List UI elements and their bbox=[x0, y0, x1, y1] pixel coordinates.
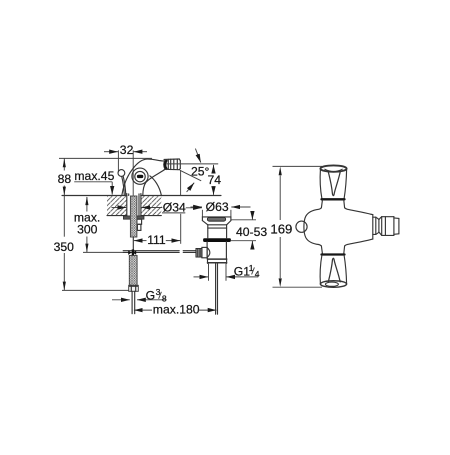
centerline faucet bbox=[132, 150, 134, 195]
supply pipe bbox=[131, 291, 133, 313]
aerator left view bbox=[164, 159, 181, 170]
svg-text:300: 300 bbox=[77, 223, 98, 237]
rod vertical segment bbox=[132, 237, 134, 250]
spout tip projection extension bbox=[180, 170, 182, 195]
dim 169 extension top bbox=[273, 165, 323, 167]
drain body lower bbox=[206, 242, 208, 259]
svg-text:max.180: max.180 bbox=[153, 303, 200, 317]
pop-up rod to deck bbox=[122, 176, 125, 195]
svg-text:88: 88 bbox=[58, 172, 72, 186]
seal ring bbox=[203, 238, 231, 242]
svg-text:max.45: max.45 bbox=[74, 169, 114, 183]
svg-text:Ø34: Ø34 bbox=[163, 200, 186, 214]
dim 40-53 bbox=[231, 219, 256, 221]
shank nut below washer bbox=[137, 219, 142, 224]
dim Ø63 label bbox=[191, 206, 203, 208]
top handle bbox=[320, 165, 346, 207]
dim 32 arrows bbox=[104, 151, 118, 153]
dim line max300 bbox=[86, 197, 88, 212]
coupling bbox=[208, 258, 227, 263]
countertop top line bbox=[62, 195, 127, 197]
dim 32 left extension bbox=[117, 150, 119, 172]
hole edges bbox=[126, 196, 128, 216]
svg-text:169: 169 bbox=[270, 221, 292, 236]
svg-text:350: 350 bbox=[54, 240, 75, 254]
dim G1 1/4 bbox=[208, 264, 210, 281]
rod extension line bbox=[83, 251, 123, 253]
hose nut G3/8 bbox=[129, 285, 139, 291]
dim G3/8 bbox=[112, 299, 130, 301]
right view spout bbox=[373, 217, 399, 236]
handle lever bar bbox=[137, 175, 143, 178]
pop-up rod horizontal bbox=[123, 250, 179, 252]
spout belly curve bbox=[143, 169, 165, 195]
shank stub lines above deck bbox=[126, 194, 128, 196]
right view pop-up knob bbox=[296, 221, 307, 232]
countertop hatch right bbox=[141, 196, 161, 215]
25 deg leader top bbox=[195, 149, 200, 163]
side port bbox=[202, 247, 207, 257]
body right edge bbox=[150, 176, 162, 196]
svg-text:4: 4 bbox=[255, 269, 260, 279]
dim 74 bbox=[213, 165, 215, 173]
25 deg reference horizontal bbox=[166, 163, 218, 165]
right view body bbox=[304, 208, 373, 246]
dim 111 bbox=[134, 240, 147, 242]
handle inner circle bbox=[135, 171, 145, 181]
plug disc bbox=[207, 217, 225, 221]
25 deg leader bottom bbox=[187, 183, 195, 192]
svg-text:G1: G1 bbox=[234, 264, 250, 278]
braided hose upper bbox=[130, 196, 137, 237]
countertop bottom line bbox=[107, 215, 127, 217]
svg-text:74: 74 bbox=[208, 173, 222, 187]
rod clamp bbox=[128, 250, 131, 255]
25 deg angled line bbox=[180, 170, 201, 181]
mounting washer under deck bbox=[123, 216, 144, 219]
dim 169 line bbox=[279, 175, 281, 220]
svg-text:G: G bbox=[146, 288, 155, 302]
faucet body outline bbox=[122, 159, 164, 195]
countertop hatch left bbox=[107, 196, 127, 215]
svg-text:111: 111 bbox=[147, 233, 166, 247]
tailpipe bbox=[215, 263, 217, 315]
pop-up knob bbox=[118, 170, 125, 177]
braided hose lower bbox=[129, 256, 137, 286]
shared dimension line 88/350 bbox=[63, 158, 65, 170]
svg-text:32: 32 bbox=[120, 143, 134, 157]
flange bbox=[202, 217, 231, 238]
arrowheads 88/350 bbox=[63, 159, 66, 168]
handle outer ring bbox=[132, 168, 148, 184]
bottom reference line 350 bbox=[62, 289, 129, 291]
Ø63 extension lines bbox=[201, 210, 203, 217]
svg-text:Ø63: Ø63 bbox=[206, 200, 229, 214]
svg-text:40-53: 40-53 bbox=[236, 225, 267, 239]
dim Ø34 bbox=[112, 207, 127, 209]
knurled knob bbox=[196, 248, 202, 257]
top extension line bbox=[59, 157, 152, 159]
rod line in hole bbox=[138, 196, 140, 216]
dim max.180 bbox=[134, 309, 152, 311]
bottom handle bbox=[320, 246, 346, 287]
dim 169 extension bottom bbox=[273, 286, 323, 288]
